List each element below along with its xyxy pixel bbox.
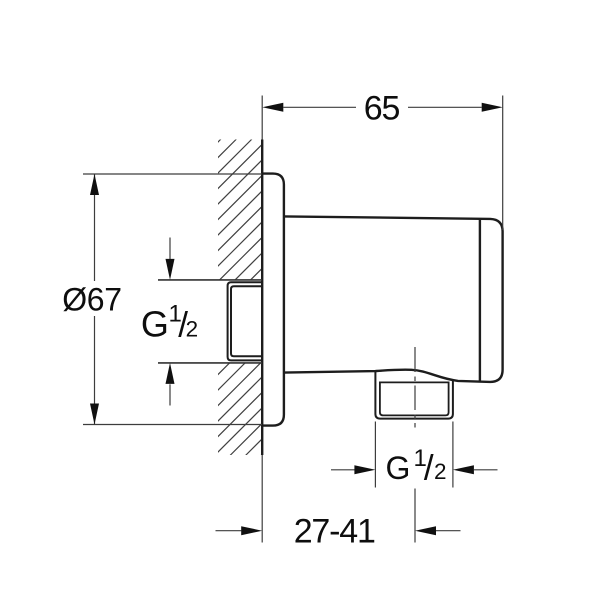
dimension O67 arrow up xyxy=(90,174,99,195)
bottom G1/2 arrow right xyxy=(474,469,498,471)
dimension O67 line upper segment xyxy=(94,174,96,281)
dimension O67 arrow down xyxy=(90,404,99,425)
svg-text:G: G xyxy=(141,304,169,345)
flange (escutcheon) xyxy=(262,174,284,426)
left G1/2 arrow up xyxy=(169,384,171,405)
dimension 27-41 arrow right xyxy=(436,530,461,532)
bottom G1/2 extension left xyxy=(374,422,376,488)
dimension O67: extension bottom xyxy=(83,424,262,426)
svg-text:27-41: 27-41 xyxy=(294,513,375,551)
dimension 65 arrow left xyxy=(262,103,283,112)
dimension O67 line lower segment xyxy=(94,316,96,425)
bottom G1/2 label xyxy=(386,445,447,488)
dimension 65 line right segment xyxy=(408,106,482,108)
bottom socket thread root xyxy=(380,382,449,415)
bottom socket thread crest xyxy=(375,371,453,418)
dimension 65: extension line right xyxy=(502,96,504,231)
bottom G1/2 arrow left xyxy=(331,469,355,471)
left G1/2 label xyxy=(141,301,198,345)
outlet center line (dashed) xyxy=(414,347,416,543)
dimension O67: extension top xyxy=(83,173,262,175)
svg-text:2: 2 xyxy=(186,316,199,341)
left G1/2 arrow down xyxy=(169,238,171,260)
svg-text:Ø67: Ø67 xyxy=(62,282,122,318)
svg-text:/: / xyxy=(424,448,434,487)
left socket thread root xyxy=(231,286,262,356)
left socket thread crest xyxy=(228,282,262,360)
bottom G1/2 extension right xyxy=(452,422,454,488)
svg-text:2: 2 xyxy=(434,459,447,484)
dimension 65 line left segment xyxy=(283,106,356,108)
wall surface line xyxy=(261,96,263,543)
wall hole edge top xyxy=(158,279,262,281)
body end-cap line xyxy=(479,219,481,381)
dimension 65 arrow right xyxy=(482,103,503,112)
body outline xyxy=(284,216,503,382)
wall hole edge bottom xyxy=(158,362,262,364)
dimension 27-41 arrow left xyxy=(216,530,242,532)
svg-text:G: G xyxy=(386,450,411,486)
wall hatch xyxy=(214,94,266,503)
svg-text:65: 65 xyxy=(364,90,400,128)
